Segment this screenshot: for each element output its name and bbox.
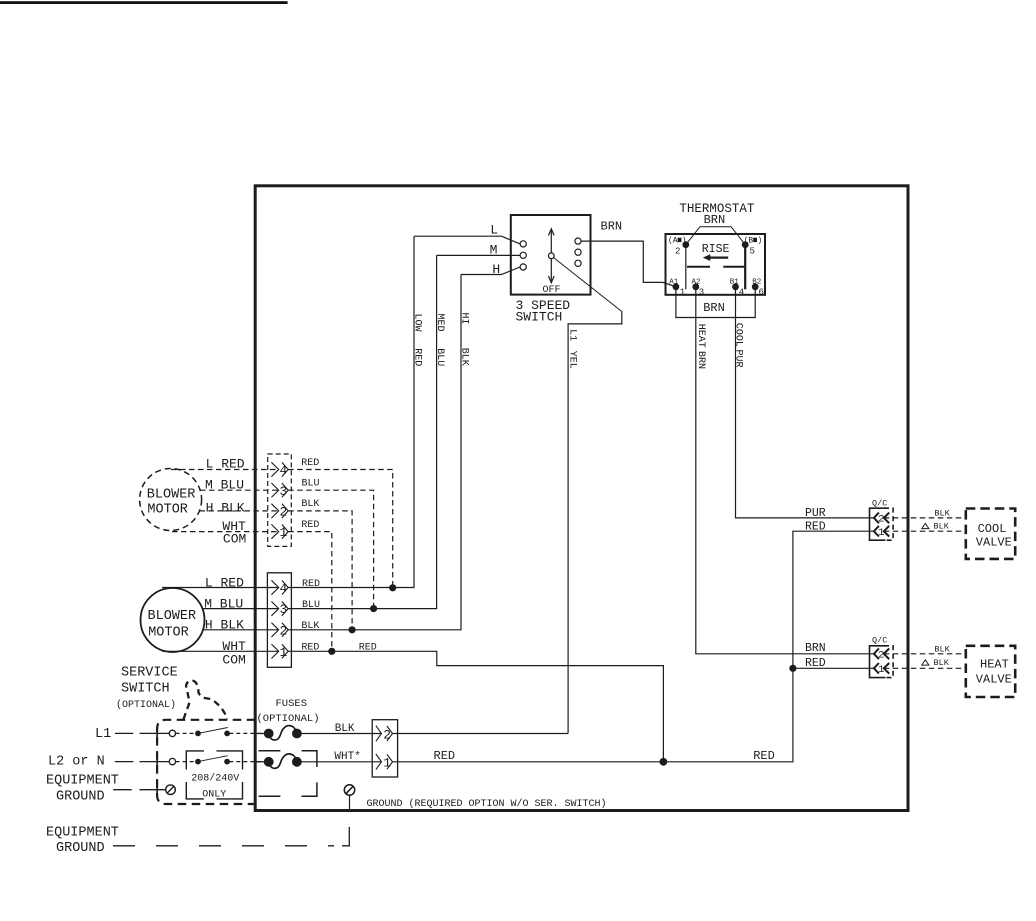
svg-text:BLU: BLU [302, 600, 320, 611]
svg-text:BLK: BLK [335, 723, 355, 735]
svg-text:RED: RED [753, 749, 775, 763]
svg-text:2: 2 [279, 623, 287, 638]
svg-text:L RED: L RED [206, 457, 245, 472]
svg-text:1: 1 [279, 525, 287, 540]
svg-text:EQUIPMENT: EQUIPMENT [46, 826, 119, 841]
svg-text:YEL: YEL [566, 351, 577, 369]
svg-text:SERVICE: SERVICE [121, 665, 178, 680]
svg-text:B1: B1 [730, 279, 740, 287]
svg-text:WHT*: WHT* [334, 751, 360, 763]
svg-text:4: 4 [739, 288, 744, 298]
svg-text:COOL: COOL [978, 522, 1007, 536]
svg-text:ONLY: ONLY [202, 789, 226, 800]
svg-text:MOTOR: MOTOR [148, 625, 189, 640]
svg-text:PUR: PUR [805, 507, 826, 520]
svg-text:3: 3 [699, 288, 704, 298]
svg-text:BLK: BLK [934, 658, 950, 668]
svg-text:B2: B2 [752, 279, 761, 287]
svg-text:BLOWER: BLOWER [148, 609, 197, 624]
svg-text:BLK: BLK [458, 348, 469, 366]
svg-text:BLK: BLK [301, 499, 319, 510]
svg-text:BRN: BRN [805, 642, 826, 655]
svg-text:PUR: PUR [733, 350, 744, 368]
svg-text:BLOWER: BLOWER [147, 488, 196, 503]
svg-text:(A: (A [668, 236, 678, 245]
svg-text:BLU: BLU [302, 479, 320, 490]
svg-text:H: H [492, 262, 500, 277]
svg-text:5: 5 [750, 246, 755, 256]
svg-text:HEAT: HEAT [980, 657, 1009, 671]
svg-text:208/240V: 208/240V [191, 773, 239, 785]
svg-text:GROUND (REQUIRED OPTION W/O SE: GROUND (REQUIRED OPTION W/O SER. SWITCH) [367, 798, 607, 810]
svg-text:3: 3 [279, 484, 287, 499]
svg-text:BLK: BLK [301, 621, 319, 632]
svg-text:2: 2 [878, 514, 884, 526]
svg-text:L1: L1 [566, 329, 577, 341]
svg-text:RED: RED [301, 520, 319, 531]
svg-text:H BLK: H BLK [205, 618, 244, 633]
svg-text:): ) [757, 236, 762, 245]
svg-text:RED: RED [412, 348, 423, 366]
svg-text:GROUND: GROUND [56, 841, 105, 856]
svg-text:BLK: BLK [934, 521, 950, 531]
svg-text:OFF: OFF [543, 285, 561, 296]
svg-text:6: 6 [759, 288, 764, 298]
svg-text:2: 2 [878, 650, 884, 662]
svg-text:VALVE: VALVE [976, 536, 1012, 550]
svg-text:2: 2 [383, 727, 391, 742]
svg-text:1: 1 [383, 756, 391, 771]
svg-text:BRN: BRN [601, 220, 623, 234]
svg-text:M BLU: M BLU [204, 596, 243, 611]
svg-text:A1: A1 [669, 279, 679, 287]
svg-text:4: 4 [279, 581, 287, 596]
svg-text:BLU: BLU [434, 348, 445, 366]
svg-text:3: 3 [279, 602, 287, 617]
svg-text:2: 2 [279, 505, 287, 520]
svg-text:2: 2 [675, 246, 680, 256]
svg-text:VALVE: VALVE [976, 672, 1012, 686]
svg-text:): ) [682, 236, 687, 245]
svg-text:4: 4 [279, 463, 287, 478]
svg-text:RED: RED [301, 643, 319, 654]
svg-text:1: 1 [878, 527, 884, 539]
svg-text:GROUND: GROUND [56, 789, 105, 804]
svg-text:(B: (B [744, 236, 754, 245]
svg-text:L RED: L RED [205, 575, 244, 590]
svg-text:RED: RED [359, 643, 377, 654]
svg-text:L1: L1 [95, 727, 111, 742]
svg-text:MOTOR: MOTOR [147, 502, 188, 517]
svg-text:L: L [490, 223, 498, 238]
svg-text:HI: HI [458, 313, 469, 325]
svg-text:(OPTIONAL): (OPTIONAL) [116, 699, 176, 711]
svg-text:HEAT: HEAT [695, 324, 706, 348]
svg-text:RED: RED [434, 749, 456, 763]
svg-text:RISE: RISE [702, 243, 730, 256]
svg-text:LOW: LOW [412, 314, 423, 332]
svg-text:1: 1 [279, 645, 287, 660]
svg-text:RED: RED [302, 579, 320, 590]
svg-text:RED: RED [805, 521, 826, 534]
svg-text:BRN: BRN [704, 213, 726, 227]
svg-text:M BLU: M BLU [205, 477, 244, 492]
svg-text:BLK: BLK [934, 645, 950, 655]
svg-text:Q/C: Q/C [872, 636, 887, 646]
svg-text:1: 1 [878, 664, 884, 676]
svg-text:EQUIPMENT: EQUIPMENT [46, 773, 119, 788]
svg-text:H BLK: H BLK [206, 501, 245, 516]
svg-text:RED: RED [301, 458, 319, 469]
svg-text:BRN: BRN [695, 351, 706, 369]
svg-text:BLK: BLK [934, 509, 950, 519]
svg-text:COM: COM [222, 653, 245, 668]
svg-text:COOL: COOL [733, 323, 744, 347]
svg-text:FUSES: FUSES [276, 698, 308, 710]
svg-text:(OPTIONAL): (OPTIONAL) [257, 713, 320, 725]
svg-text:COM: COM [223, 531, 246, 546]
svg-text:Q/C: Q/C [872, 498, 887, 508]
svg-text:MED: MED [434, 314, 445, 332]
svg-text:SWITCH: SWITCH [121, 681, 170, 696]
svg-text:SWITCH: SWITCH [516, 310, 563, 325]
svg-text:1: 1 [680, 288, 685, 298]
svg-text:RED: RED [805, 657, 826, 670]
svg-text:L2 or N: L2 or N [48, 755, 105, 770]
svg-text:BRN: BRN [703, 301, 725, 315]
svg-text:A2: A2 [692, 279, 701, 287]
svg-text:M: M [490, 242, 498, 257]
